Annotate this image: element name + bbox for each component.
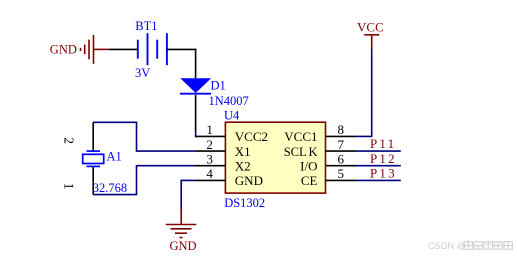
svg-text:VCC1: VCC1	[284, 129, 317, 144]
svg-text:X2: X2	[235, 159, 251, 174]
svg-text:X1: X1	[235, 144, 251, 159]
svg-text:A1: A1	[107, 150, 122, 164]
svg-text:CE: CE	[301, 173, 318, 188]
svg-text:P13: P13	[370, 166, 397, 181]
svg-text:VCC: VCC	[357, 19, 384, 34]
svg-text:1: 1	[206, 122, 213, 137]
svg-text:BT1: BT1	[135, 19, 157, 33]
svg-text:2: 2	[62, 137, 77, 144]
svg-text:6: 6	[338, 152, 345, 167]
svg-text:SCLK: SCLK	[284, 145, 318, 159]
svg-text:4: 4	[206, 166, 213, 181]
svg-text:GND: GND	[235, 173, 263, 188]
svg-text:7: 7	[338, 137, 345, 152]
svg-text:5: 5	[338, 166, 345, 181]
svg-text:3: 3	[206, 152, 213, 167]
svg-text:P11: P11	[370, 136, 396, 151]
svg-text:3V: 3V	[135, 66, 150, 80]
svg-text:1: 1	[62, 183, 77, 190]
svg-text:U4: U4	[224, 109, 240, 123]
svg-text:8: 8	[338, 122, 345, 137]
svg-text:CSDN @: CSDN @	[428, 241, 466, 251]
svg-text:P12: P12	[370, 151, 397, 166]
svg-text:VCC2: VCC2	[235, 129, 268, 144]
svg-text:I/O: I/O	[300, 159, 317, 174]
svg-text:GND: GND	[50, 42, 77, 56]
svg-text:1N4007: 1N4007	[209, 94, 249, 108]
svg-text:D1: D1	[211, 78, 226, 92]
svg-text:2: 2	[206, 137, 213, 152]
svg-text:DS1302: DS1302	[224, 196, 265, 210]
svg-text:32.768: 32.768	[93, 181, 127, 195]
svg-text:GND: GND	[169, 239, 196, 253]
